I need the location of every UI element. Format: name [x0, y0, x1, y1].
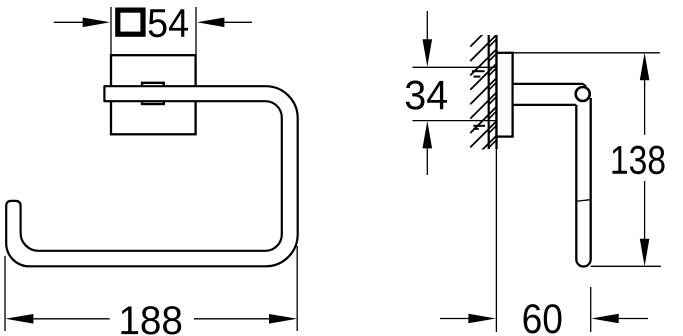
dimension 54: right extension line	[195, 7, 197, 55]
dimension 54: left arrow	[54, 21, 84, 23]
dimension 34: bottom extension line	[413, 120, 497, 122]
dimension 138: line lower segment	[644, 181, 646, 239]
hanging tube (side view)	[576, 98, 590, 267]
dimension 34: top arrow	[426, 11, 428, 40]
label 34	[406, 80, 447, 109]
hatch break dashes near 34 lines	[472, 70, 485, 72]
dimension 60: right arrow	[619, 318, 649, 320]
dimension 60: left extension line (wall line continued)	[495, 149, 497, 332]
dimension 188: left arrow	[5, 314, 33, 324]
dimension 54: left extension line	[110, 7, 112, 55]
joint tick on tube	[576, 200, 591, 202]
dimension 138: top extension line	[514, 52, 660, 54]
mounting post behind bar	[142, 83, 164, 104]
dimension 60: left arrow	[440, 318, 469, 320]
dimension 188: right arrow	[269, 314, 297, 324]
wall plate (side view)	[497, 53, 513, 137]
dimension 34: bottom arrow	[426, 148, 428, 175]
label 188	[121, 306, 181, 334]
dimension 60: right extension line	[590, 287, 592, 332]
arm bottom line	[513, 104, 577, 106]
wall plate (front view)	[111, 55, 196, 134]
dimension 54: right arrow	[224, 21, 252, 23]
dimension 138: top arrow	[640, 53, 650, 81]
label 54	[149, 9, 188, 37]
label 60	[524, 304, 562, 333]
holder tube (front view silhouette)	[6, 86, 298, 266]
arm white fill	[514, 85, 583, 104]
square symbol of 54	[118, 10, 143, 34]
dimension 34: top extension line	[413, 66, 497, 68]
wall surface line right	[495, 35, 497, 149]
dimension 138: bottom extension line	[591, 265, 661, 267]
arm end nub	[583, 84, 586, 87]
pivot circle	[576, 87, 590, 101]
dimension 138: line upper segment	[644, 80, 646, 135]
dimension 138: bottom arrow	[640, 239, 650, 266]
dimension 188: left extension line	[4, 256, 6, 331]
wall hatching	[470, 21, 496, 177]
label 138	[612, 146, 664, 175]
arm top line	[513, 83, 584, 85]
dimension 188: right extension line	[296, 246, 298, 331]
wall surface line left	[488, 35, 490, 149]
